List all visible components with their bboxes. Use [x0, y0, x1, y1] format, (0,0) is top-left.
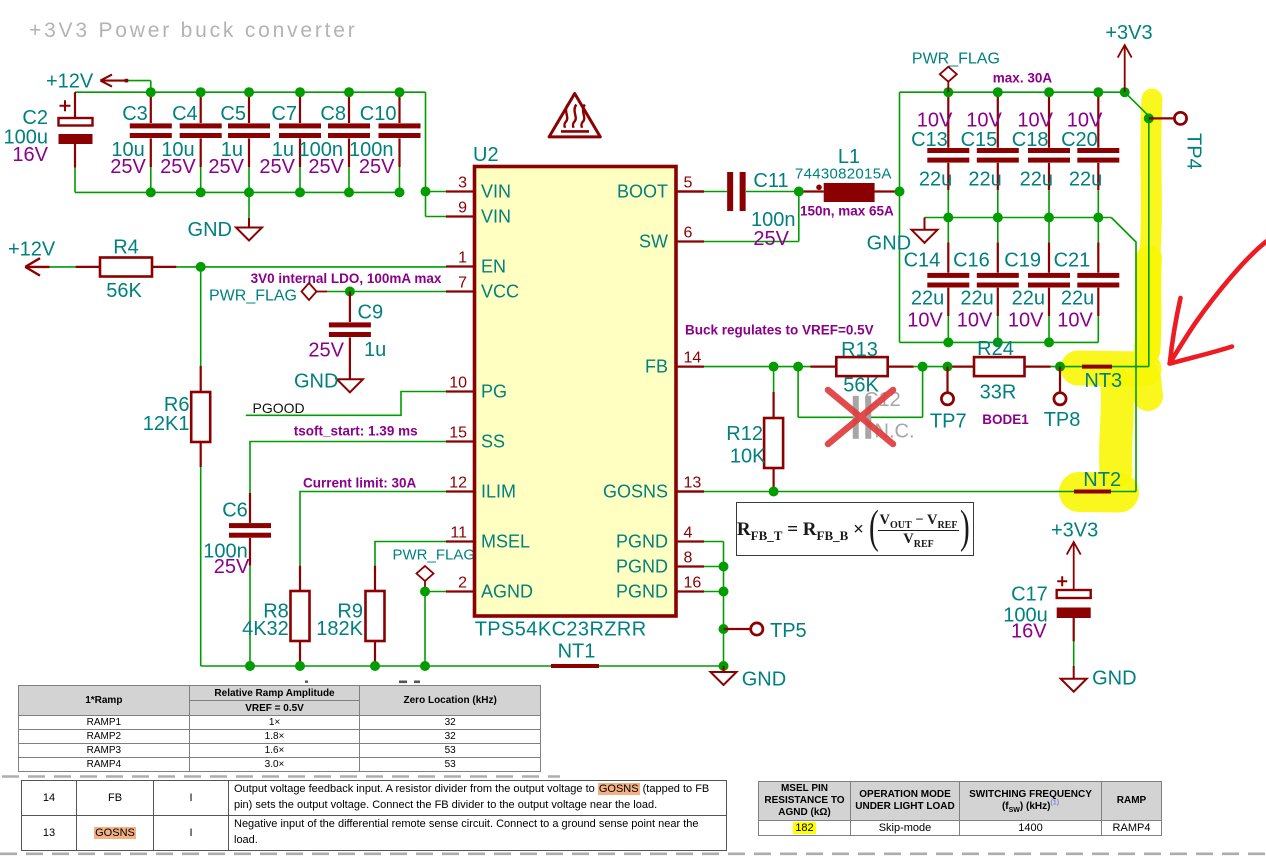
svg-text:3V0 internal LDO, 100mA max: 3V0 internal LDO, 100mA max — [251, 271, 442, 286]
svg-text:GND: GND — [294, 371, 338, 393]
svg-text:25V: 25V — [753, 228, 789, 250]
svg-text:max. 30A: max. 30A — [993, 70, 1053, 85]
svg-text:ILIM: ILIM — [481, 482, 516, 502]
svg-text:BODE1: BODE1 — [982, 412, 1029, 427]
svg-text:R24: R24 — [977, 338, 1014, 360]
svg-text:10K: 10K — [730, 446, 766, 468]
svg-text:GND: GND — [742, 669, 786, 691]
svg-text:2: 2 — [458, 575, 467, 592]
svg-text:VCC: VCC — [481, 282, 519, 302]
svg-text:C15: C15 — [961, 129, 998, 151]
svg-text:+12V: +12V — [46, 71, 94, 93]
svg-text:1: 1 — [458, 250, 467, 267]
svg-text:SW: SW — [639, 232, 668, 252]
svg-text:C18: C18 — [1012, 129, 1049, 151]
svg-text:U2: U2 — [473, 144, 499, 166]
svg-text:10V: 10V — [1057, 310, 1093, 332]
svg-text:R12: R12 — [726, 423, 763, 445]
svg-text:7443082015A: 7443082015A — [795, 166, 892, 183]
svg-text:SS: SS — [481, 432, 505, 452]
svg-text:C7: C7 — [271, 103, 297, 125]
svg-text:6: 6 — [684, 225, 693, 242]
svg-text:PGOOD: PGOOD — [253, 400, 305, 416]
svg-text:150n, max 65A: 150n, max 65A — [800, 204, 894, 219]
svg-text:R4: R4 — [113, 237, 139, 259]
svg-text:C13: C13 — [911, 129, 948, 151]
svg-text:TPS54KC23RZRR: TPS54KC23RZRR — [475, 619, 647, 641]
svg-text:12K1: 12K1 — [143, 413, 190, 435]
svg-text:10V: 10V — [907, 310, 943, 332]
svg-text:22u: 22u — [1069, 168, 1102, 190]
svg-text:Current limit: 30A: Current limit: 30A — [303, 476, 417, 491]
svg-text:25V: 25V — [259, 156, 295, 178]
svg-text:182K: 182K — [316, 618, 363, 640]
svg-text:C5: C5 — [220, 103, 246, 125]
svg-text:15: 15 — [449, 425, 467, 442]
svg-text:10V: 10V — [957, 310, 993, 332]
svg-text:VIN: VIN — [481, 207, 511, 227]
svg-text:C19: C19 — [1004, 250, 1041, 272]
svg-text:NT1: NT1 — [558, 641, 596, 663]
svg-text:25V: 25V — [359, 156, 395, 178]
svg-text:NT3: NT3 — [1084, 370, 1122, 392]
svg-text:33R: 33R — [980, 382, 1017, 404]
svg-text:GND: GND — [867, 233, 911, 255]
svg-text:25V: 25V — [110, 156, 146, 178]
svg-text:14: 14 — [684, 350, 702, 367]
svg-text:16V: 16V — [1011, 621, 1047, 643]
svg-text:tsoft_start: 1.39 ms: tsoft_start: 1.39 ms — [294, 424, 418, 439]
svg-text:22u: 22u — [1020, 168, 1053, 190]
svg-text:GOSNS: GOSNS — [603, 482, 668, 502]
svg-text:GND: GND — [1092, 668, 1136, 690]
svg-text:16V: 16V — [12, 144, 48, 166]
svg-text:1u: 1u — [364, 339, 386, 361]
svg-text:VIN: VIN — [481, 182, 511, 202]
svg-text:13: 13 — [684, 475, 702, 492]
svg-text:4K32: 4K32 — [242, 618, 289, 640]
svg-text:C9: C9 — [358, 302, 384, 324]
svg-text:7: 7 — [458, 275, 467, 292]
svg-text:Buck regulates to VREF=0.5V: Buck regulates to VREF=0.5V — [685, 323, 874, 338]
svg-text:10: 10 — [449, 375, 467, 392]
svg-text:C3: C3 — [122, 103, 148, 125]
svg-text:4: 4 — [684, 525, 693, 542]
svg-text:GND: GND — [188, 219, 232, 241]
svg-text:+3V3: +3V3 — [1051, 520, 1098, 542]
svg-text:EN: EN — [481, 257, 506, 277]
svg-text:PGND: PGND — [616, 557, 668, 577]
svg-text:22u: 22u — [919, 168, 952, 190]
svg-text:22u: 22u — [1012, 288, 1045, 310]
svg-text:+3V3 Power buck converter: +3V3 Power buck converter — [29, 19, 358, 42]
svg-text:TP5: TP5 — [770, 620, 807, 642]
svg-text:FB: FB — [645, 357, 668, 377]
svg-text:C17: C17 — [1011, 584, 1048, 606]
svg-text:C20: C20 — [1061, 129, 1098, 151]
svg-text:25V: 25V — [208, 156, 244, 178]
svg-text:25V: 25V — [308, 156, 344, 178]
svg-text:MSEL: MSEL — [481, 532, 530, 552]
svg-text:22u: 22u — [1061, 288, 1094, 310]
svg-text:8: 8 — [684, 550, 693, 567]
svg-text:C8: C8 — [320, 103, 346, 125]
svg-text:C6: C6 — [222, 500, 248, 522]
svg-text:PWR_FLAG: PWR_FLAG — [912, 51, 1000, 68]
svg-text:TP8: TP8 — [1044, 409, 1081, 431]
svg-text:C4: C4 — [172, 103, 198, 125]
svg-text:25V: 25V — [308, 340, 344, 362]
svg-text:PG: PG — [481, 382, 507, 402]
svg-text:+12V: +12V — [8, 239, 56, 261]
svg-text:C10: C10 — [360, 103, 397, 125]
svg-text:PWR_FLAG: PWR_FLAG — [393, 547, 476, 564]
svg-text:TP7: TP7 — [930, 411, 967, 433]
svg-text:C16: C16 — [953, 250, 990, 272]
svg-text:22u: 22u — [968, 168, 1001, 190]
svg-text:C21: C21 — [1054, 250, 1091, 272]
svg-text:56K: 56K — [106, 280, 142, 302]
svg-text:3: 3 — [458, 175, 467, 192]
svg-text:25V: 25V — [214, 556, 250, 578]
svg-text:AGND: AGND — [481, 582, 533, 602]
svg-text:PWR_FLAG: PWR_FLAG — [209, 288, 297, 305]
svg-text:C11: C11 — [753, 170, 788, 192]
svg-text:5: 5 — [684, 175, 693, 192]
svg-text:9: 9 — [458, 200, 467, 217]
svg-text:11: 11 — [450, 525, 467, 542]
svg-text:10V: 10V — [1008, 310, 1044, 332]
svg-text:TP4: TP4 — [1183, 133, 1205, 170]
svg-text:16: 16 — [684, 575, 702, 592]
svg-text:BOOT: BOOT — [617, 182, 668, 202]
svg-text:22u: 22u — [911, 288, 944, 310]
svg-text:22u: 22u — [960, 288, 993, 310]
svg-text:PGND: PGND — [616, 582, 668, 602]
svg-text:12: 12 — [449, 475, 467, 492]
svg-text:25V: 25V — [160, 156, 196, 178]
svg-text:PGND: PGND — [616, 532, 668, 552]
svg-text:R13: R13 — [841, 339, 878, 361]
svg-text:NT2: NT2 — [1083, 469, 1121, 491]
svg-text:+3V3: +3V3 — [1105, 22, 1152, 44]
